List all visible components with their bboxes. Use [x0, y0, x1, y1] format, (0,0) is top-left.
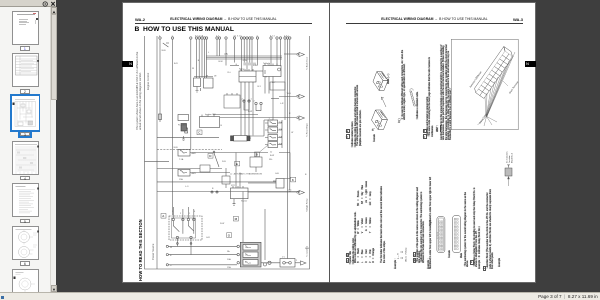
- svg-text:L-W: L-W: [253, 65, 257, 67]
- bottom horizontals: [169, 245, 238, 247]
- HINT illustration box: [451, 40, 519, 131]
- svg-text:20A: 20A: [279, 143, 283, 146]
- svg-text:W: W: [291, 132, 293, 134]
- svg-text:FL MAIN: FL MAIN: [178, 124, 187, 127]
- svg-text:W-B: W-B: [287, 93, 292, 95]
- page number WA-2: [135, 17, 145, 22]
- svg-text:B-W: B-W: [270, 155, 274, 157]
- svg-text:G-W: G-W: [243, 60, 247, 62]
- svg-text:G-R: G-R: [206, 237, 210, 239]
- svg-text:1: 1: [251, 99, 253, 101]
- section title: [135, 26, 234, 33]
- thumb 4 : dense overall diagram: [12, 141, 39, 175]
- E/F paragraph: [352, 78, 354, 148]
- thumb 3 : selected (current) wiring diagram page: [10, 94, 40, 132]
- header rule: [346, 22, 523, 25]
- b1 b2: [194, 78, 201, 87]
- svg-text:Same Color: Same Color: [478, 113, 488, 125]
- svg-text:G: G: [228, 234, 231, 238]
- svg-text:3: 3: [266, 77, 268, 79]
- svg-text:To Rear Wiper: To Rear Wiper: [306, 123, 309, 137]
- labels M/L row 2: [413, 258, 417, 263]
- svg-text:Engine Control: Engine Control: [146, 72, 150, 90]
- svg-text:1: 1: [172, 211, 174, 213]
- ground below b1: [196, 87, 199, 93]
- fuses b9 b10: [178, 149, 190, 156]
- small component on first wire: [159, 114, 162, 120]
- extra mid components: [224, 95, 240, 108]
- svg-text:W: W: [192, 68, 194, 70]
- svg-text:B: B: [305, 174, 307, 176]
- svg-text:W-B: W-B: [305, 248, 310, 250]
- () paragraph: [402, 43, 407, 120]
- HINT paragraph: [441, 43, 453, 140]
- svg-text:1 2 3 4 5: 1 2 3 4 5: [437, 232, 439, 239]
- svg-text:( ) : AUTOMATIC TRANSMISSION: ( ) : AUTOMATIC TRANSMISSION: [230, 173, 262, 176]
- thumb 6 : relay location figures: [12, 226, 39, 260]
- marker R(): [399, 111, 401, 123]
- rotated margin note: [136, 38, 143, 130]
- right side connector triangles: [297, 52, 306, 265]
- svg-text:B-R: B-R: [174, 63, 178, 65]
- svg-text:Ignition SW: Ignition SW: [205, 113, 216, 116]
- relay block paragraph: [474, 187, 479, 267]
- sidebar toolbar: [0, 0, 56, 7]
- svg-text:15A: 15A: [227, 266, 231, 269]
- svg-text:L-R: L-R: [280, 103, 284, 105]
- svg-text:15A: 15A: [279, 121, 283, 124]
- svg-text:15A: 15A: [179, 178, 183, 181]
- svg-text:ST2: ST2: [231, 185, 236, 187]
- shielded cable drawing: [409, 87, 417, 108]
- svg-text:15A: 15A: [279, 136, 283, 139]
- junction block gray b16: [240, 242, 261, 267]
- left page: [122, 2, 329, 283]
- svg-text:1: 1: [189, 213, 191, 215]
- middle band extras: [200, 165, 210, 172]
- svg-text:To Junction: To Junction: [306, 245, 309, 257]
- svg-text:B: B: [256, 153, 258, 157]
- female label: [374, 134, 376, 142]
- svg-text:6 5 3 2 8: 6 5 3 2 8: [195, 36, 204, 38]
- status bar: [0, 292, 600, 300]
- fuse column b11: [268, 120, 278, 126]
- drops below b3: [265, 77, 273, 121]
- svg-text:2: 2: [180, 213, 182, 215]
- thumbnails: [0, 0, 56, 1]
- header rule: [135, 22, 312, 25]
- svg-text:C: C: [198, 131, 201, 135]
- arrow between connectors: [380, 95, 387, 108]
- ignition switch top-left: [163, 43, 169, 47]
- svg-text:Power Source: Power Source: [151, 243, 155, 260]
- example L-Y: [395, 259, 397, 269]
- first letter note: [381, 183, 386, 263]
- svg-text:W-B: W-B: [162, 50, 167, 52]
- scrollbar: [50, 7, 56, 292]
- switch mid: [214, 153, 219, 167]
- tiny wire labels: [159, 36, 310, 270]
- svg-text:1J: 1J: [270, 152, 272, 154]
- label G: [423, 129, 427, 134]
- label P: [483, 266, 487, 271]
- connector strip gray: [243, 63, 256, 66]
- svg-text:E: E: [236, 162, 238, 166]
- fuse on battery line: [185, 128, 188, 133]
- svg-text:Taillight Relay: Taillight Relay: [306, 198, 309, 212]
- svg-text:2: 2: [254, 101, 256, 103]
- shielded text: [417, 60, 419, 120]
- svg-text:(Yellow): (Yellow): [406, 248, 408, 256]
- bus lines: [206, 55, 282, 57]
- svg-text:4: 4: [194, 211, 196, 213]
- page number WA-3: [513, 17, 523, 22]
- page separator: [329, 2, 331, 283]
- svg-text:2: 2: [296, 260, 298, 262]
- svg-text:1: 1: [269, 118, 271, 120]
- b5 FL box: [178, 115, 189, 121]
- svg-text:A: A: [162, 214, 164, 218]
- label N: [470, 260, 474, 265]
- male connector (isometric): [372, 70, 389, 94]
- svg-text:R-L: R-L: [228, 72, 232, 74]
- svg-text:W: W: [170, 247, 172, 249]
- mid junction circles: [243, 100, 245, 102]
- right page: [330, 2, 536, 283]
- svg-text:10A: 10A: [227, 258, 231, 261]
- label F: [346, 134, 350, 139]
- label E: [346, 129, 350, 134]
- thumb 7 : connector page (clipped): [12, 269, 39, 293]
- svg-text:D: D: [209, 154, 212, 158]
- svg-text:Starter: Starter: [241, 200, 248, 203]
- svg-text:W-B: W-B: [174, 147, 179, 149]
- label L: [346, 258, 350, 263]
- svg-text:B-W: B-W: [248, 111, 252, 113]
- thumb 1 : title page: [12, 11, 39, 45]
- b14 relay: [231, 188, 249, 199]
- relay detail b15: [169, 216, 202, 240]
- svg-text:4 1 3 2 5: 4 1 3 2 5: [234, 36, 243, 38]
- svg-text:R: R: [289, 113, 291, 115]
- b6 relay: [200, 117, 220, 128]
- grounds mid: [201, 88, 236, 205]
- svg-text:G-B: G-B: [275, 173, 279, 175]
- svg-text:B-W: B-W: [219, 61, 223, 63]
- svg-text:W-L: W-L: [269, 159, 274, 161]
- svg-text:K: K: [292, 178, 294, 182]
- wiring diagram: [122, 2, 329, 283]
- pin grid male: [452, 216, 461, 254]
- svg-text:(2A): (2A): [224, 53, 228, 56]
- HINT heading: [437, 125, 440, 132]
- svg-text:B-Y: B-Y: [258, 86, 262, 88]
- position paragraph: [417, 187, 422, 263]
- boxed letter labels: [161, 130, 296, 238]
- section tab (black): [525, 61, 537, 67]
- svg-text:R: R: [170, 265, 172, 267]
- junction block paragraph: [487, 187, 494, 269]
- junction connector b17: [280, 259, 295, 268]
- pin grid female: [436, 216, 446, 253]
- G/H paragraph: [427, 49, 429, 137]
- running header: [135, 17, 312, 21]
- svg-text:R-W: R-W: [220, 223, 224, 225]
- fan of wires: [478, 53, 516, 127]
- svg-text:L: L: [208, 52, 210, 54]
- link b1-b2: [194, 76, 213, 78]
- svg-text:R-B: R-B: [222, 161, 226, 163]
- system title: [350, 251, 352, 265]
- pin number paragraph: [421, 187, 426, 263]
- svg-text:To Back Door: To Back Door: [306, 57, 309, 70]
- svg-text:J 5: J 5: [282, 257, 286, 259]
- svg-text:B: B: [170, 255, 172, 257]
- junction connector slab (rotated): [473, 47, 515, 99]
- sidebar: [0, 0, 56, 292]
- svg-text:L-O: L-O: [185, 186, 189, 188]
- svg-text:L – Y: L – Y: [396, 253, 400, 259]
- label K: [346, 253, 350, 258]
- vertical section label: [138, 219, 143, 281]
- svg-text:Taillight: Taillight: [263, 62, 270, 65]
- svg-text:B: B: [221, 125, 223, 127]
- svg-text:B-Y: B-Y: [272, 82, 276, 84]
- top connector circles: [159, 37, 291, 39]
- svg-text:Block No.3: Block No.3: [511, 152, 513, 163]
- svg-text:B: B: [212, 188, 214, 190]
- svg-text:Relay: Relay: [239, 69, 245, 71]
- thumb 5 : list page: [12, 183, 39, 217]
- svg-text:Short Terminal: Short Terminal: [508, 81, 518, 95]
- svg-text:3 1 4: 3 1 4: [270, 36, 275, 38]
- drops below b4: [241, 82, 253, 136]
- horizontals: [157, 136, 219, 138]
- numbering overall: [465, 187, 470, 267]
- b12 connector: [234, 136, 248, 142]
- frame: [145, 36, 310, 269]
- example junction block figure: [503, 148, 515, 186]
- svg-text:(Blue): (Blue): [406, 257, 408, 263]
- relay b4: [239, 71, 256, 82]
- svg-text:5A: 5A: [227, 250, 230, 253]
- male label: [388, 74, 390, 84]
- female connector (isometric): [370, 108, 389, 132]
- horizontals to right connectors: [279, 96, 296, 98]
- svg-text:1E: 1E: [214, 76, 217, 78]
- thumb 2 : index table page: [12, 53, 39, 87]
- relay b3: [263, 66, 281, 77]
- vertical wires from circles: [159, 39, 161, 122]
- svg-text:10A: 10A: [279, 128, 283, 131]
- svg-text:1 7: 1 7: [216, 36, 220, 38]
- svg-text:7.5A: 7.5A: [179, 158, 184, 161]
- wire color code table: [358, 171, 377, 263]
- rotated body : virtual landscape 254 x 200, maps to x 333..533, y 28..282: [333, 28, 533, 282]
- label H: [423, 134, 427, 139]
- running header: [346, 17, 523, 21]
- svg-text:2: 2: [250, 138, 252, 140]
- section tab (black): [122, 61, 133, 67]
- b13: [276, 179, 284, 189]
- battery b7: [181, 124, 187, 132]
- svg-text:M: M: [235, 217, 238, 221]
